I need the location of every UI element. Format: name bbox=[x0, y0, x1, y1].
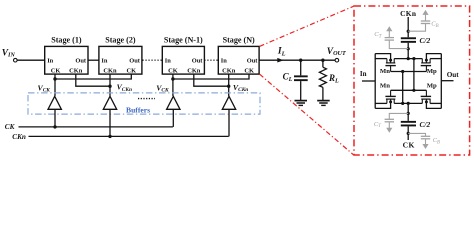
node VCK pair2 junction bbox=[171, 77, 174, 80]
parasitic capacitor CB top bbox=[408, 10, 430, 31]
wire buffer3 input riser bbox=[172, 109, 174, 127]
wire Stage1 Out to Stage2 In bbox=[88, 59, 99, 61]
buffer U3 bbox=[167, 96, 180, 109]
svg-text:CK: CK bbox=[168, 68, 178, 75]
wire CKn to C/2 top bbox=[407, 17, 409, 37]
ellipsis between buffers bbox=[138, 98, 155, 100]
wire Out pin bbox=[441, 80, 453, 82]
node RL junction bbox=[321, 59, 324, 62]
wire C/2 top to rail bbox=[407, 43, 409, 59]
svg-text:Mp: Mp bbox=[427, 83, 437, 90]
svg-text:C/2: C/2 bbox=[420, 120, 431, 129]
svg-text:CK: CK bbox=[127, 68, 137, 75]
node CB bottom tap junction bbox=[407, 132, 410, 135]
node Y dot at C/2 bbox=[407, 102, 410, 105]
dotted wire Stage N-1 Out to Stage N In bbox=[204, 59, 218, 61]
ground for CL bbox=[295, 101, 308, 106]
svg-text:C/2: C/2 bbox=[420, 36, 431, 45]
svg-text:In: In bbox=[360, 70, 367, 78]
svg-text:CKn: CKn bbox=[400, 9, 416, 18]
current arrow IL bbox=[277, 58, 283, 63]
node Y dot at cross wire bbox=[401, 102, 404, 105]
svg-text:CKn: CKn bbox=[187, 68, 201, 75]
wire bottom rail node Y bbox=[394, 102, 422, 104]
svg-text:In: In bbox=[165, 57, 171, 64]
svg-text:Out: Out bbox=[247, 57, 259, 64]
parasitic capacitor CB bottom bbox=[408, 133, 430, 149]
node bulk tie Mn bottom bbox=[389, 100, 392, 103]
wire Stage1 CK stub to buffer1 bbox=[54, 74, 56, 96]
transistor Mp bottom bbox=[421, 90, 431, 103]
wire Stage1 CKn stub bbox=[76, 74, 110, 86]
parasitic capacitor CT top bbox=[385, 26, 409, 48]
stage block N bbox=[218, 35, 259, 74]
node CL junction bbox=[299, 59, 302, 62]
wire Out rail bbox=[440, 54, 442, 109]
wire CKn clock line bbox=[29, 135, 229, 137]
node CT top tap junction bbox=[407, 47, 410, 50]
wire VIN to Stage 1 In bbox=[17, 59, 45, 61]
wire In source jog bottom bbox=[375, 102, 387, 104]
svg-text:Stage (N-1): Stage (N-1) bbox=[164, 35, 203, 44]
wire rail to C/2 bottom bbox=[407, 103, 409, 121]
node CK junction buffer1 bbox=[53, 125, 56, 128]
transistor Mn top bbox=[385, 59, 395, 72]
svg-text:CK: CK bbox=[403, 140, 415, 149]
svg-text:Stage (1): Stage (1) bbox=[51, 35, 82, 44]
wire In bulk route top bbox=[375, 54, 390, 61]
buffers enclosure box bbox=[28, 93, 260, 114]
terminal VIN bbox=[14, 58, 18, 62]
parasitic capacitor CT bottom bbox=[385, 113, 409, 132]
buffer U2 bbox=[103, 96, 116, 109]
node gate rail upper junction bbox=[401, 70, 404, 73]
wire Stage N CKn stub to buffer4 bbox=[228, 74, 230, 96]
wire CK rail pair1 bbox=[55, 74, 131, 79]
wire buffer2 input riser bbox=[109, 109, 111, 136]
wire C/2 bottom to CK bbox=[407, 126, 409, 140]
dotted wire Stage2 Out to Stage N-1 In bbox=[143, 59, 163, 61]
capacitor C/2 bottom bbox=[401, 121, 416, 127]
capacitor CL bbox=[294, 60, 308, 100]
wire buffer4 input riser bbox=[228, 109, 230, 136]
svg-text:In: In bbox=[101, 57, 107, 64]
svg-text:Out: Out bbox=[75, 57, 87, 64]
wire Stage N-1 CK stub to buffer3 bbox=[172, 74, 174, 96]
svg-text:Buffers: Buffers bbox=[126, 105, 150, 114]
wire Out bulk route top bbox=[426, 54, 441, 61]
node bulk tie Mn top bbox=[389, 59, 392, 62]
node CT bottom tap junction bbox=[407, 112, 410, 115]
wire gate rail upper bbox=[391, 71, 427, 73]
svg-text:Mp: Mp bbox=[427, 68, 437, 75]
callout line upper from Stage N to detail box bbox=[260, 6, 354, 46]
svg-text:Out: Out bbox=[192, 57, 204, 64]
wire Out source jog top bbox=[430, 58, 441, 60]
wire Out bulk route bottom bbox=[426, 102, 441, 109]
node bulk tie Mp bottom bbox=[425, 100, 428, 103]
svg-text:CK: CK bbox=[51, 68, 61, 75]
wire Stage N-1 CKn stub bbox=[194, 74, 229, 86]
transistor Mn bottom bbox=[385, 90, 395, 103]
buffer U1 bbox=[48, 96, 61, 109]
transistor Mp top bbox=[421, 59, 431, 72]
callout line lower from Stage N to detail box bbox=[260, 74, 354, 155]
node CKn junction buffer2 bbox=[108, 135, 111, 138]
capacitor C/2 top bbox=[401, 37, 416, 43]
wire buffer1 input riser bbox=[54, 109, 56, 127]
ground for RL bbox=[317, 101, 330, 106]
wire cross couple B bbox=[413, 59, 415, 91]
terminal VOUT bbox=[335, 58, 339, 62]
node VCKn pair1 junction bbox=[108, 85, 111, 88]
svg-text:CKn: CKn bbox=[222, 68, 236, 75]
svg-text:CK: CK bbox=[5, 123, 16, 131]
wire In source jog top bbox=[375, 58, 387, 60]
node bulk tie Mp top bbox=[425, 59, 428, 62]
svg-text:CKn: CKn bbox=[12, 133, 26, 141]
node X dot at cross wire bbox=[412, 57, 415, 60]
wire Stage2 CKn stub to buffer2 bbox=[109, 74, 111, 96]
wire Stage N Out to VOUT bbox=[259, 59, 335, 61]
node X dot at C/2 bbox=[407, 57, 410, 60]
wire In pin bbox=[362, 80, 375, 82]
wire cross couple A bbox=[402, 72, 404, 104]
node VCKn pair2 junction bbox=[227, 85, 230, 88]
svg-text:Out: Out bbox=[447, 71, 460, 79]
buffer U4 bbox=[222, 96, 235, 109]
svg-text:In: In bbox=[221, 57, 227, 64]
wire CK rail pair2 bbox=[173, 74, 249, 79]
node VCK pair1 junction bbox=[53, 77, 56, 80]
svg-text:Stage (N): Stage (N) bbox=[223, 35, 255, 44]
wire CK clock line bbox=[19, 126, 173, 128]
resistor RL bbox=[319, 60, 326, 100]
svg-text:CKn: CKn bbox=[69, 68, 83, 75]
svg-text:Mn: Mn bbox=[380, 83, 390, 90]
stage block N-1 bbox=[162, 35, 204, 74]
wire top rail node X bbox=[394, 58, 422, 60]
node CB top tap junction bbox=[407, 30, 410, 33]
stage block 2 bbox=[99, 35, 142, 74]
wire gate rail lower bbox=[391, 89, 427, 91]
wire In rail bbox=[374, 54, 376, 109]
svg-text:In: In bbox=[47, 57, 53, 64]
wire Out source jog bottom bbox=[430, 102, 441, 104]
svg-text:CKn: CKn bbox=[103, 68, 117, 75]
node gate rail lower junction bbox=[412, 89, 415, 92]
stage block 1 bbox=[45, 35, 88, 74]
svg-text:Out: Out bbox=[129, 57, 141, 64]
wire In bulk route bottom bbox=[375, 102, 390, 109]
svg-text:Stage (2): Stage (2) bbox=[105, 35, 136, 44]
detail enclosure box (stage internals) bbox=[354, 6, 470, 155]
svg-text:CK: CK bbox=[244, 68, 254, 75]
svg-text:Mn: Mn bbox=[380, 68, 390, 75]
